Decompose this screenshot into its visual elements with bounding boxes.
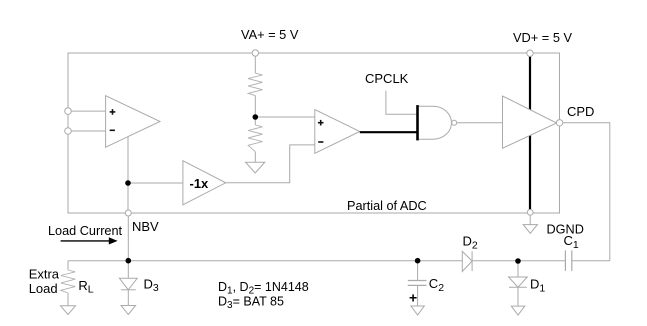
svg-text:Load: Load [29, 281, 58, 296]
svg-text:+: + [409, 289, 417, 305]
svg-text:D3= BAT 85: D3= BAT 85 [218, 295, 284, 312]
svg-text:NBV: NBV [132, 219, 159, 234]
svg-text:CPCLK: CPCLK [365, 71, 409, 86]
svg-text:Partial of ADC: Partial of ADC [347, 199, 427, 213]
svg-text:D1: D1 [530, 277, 545, 295]
svg-text:D3: D3 [144, 276, 159, 294]
svg-text:CPD: CPD [567, 104, 594, 119]
svg-text:C2: C2 [429, 276, 444, 294]
svg-text:RL: RL [78, 278, 93, 296]
svg-text:D2: D2 [463, 234, 478, 252]
svg-text:Extra: Extra [29, 267, 60, 282]
svg-text:VA+ = 5 V: VA+ = 5 V [241, 27, 299, 42]
svg-text:VD+ = 5 V: VD+ = 5 V [513, 30, 573, 45]
svg-text:Load Current: Load Current [48, 224, 123, 238]
svg-text:-1x: -1x [190, 176, 210, 191]
